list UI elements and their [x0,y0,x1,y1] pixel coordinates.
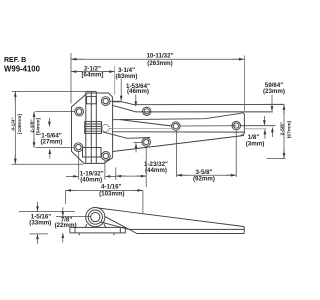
svg-text:2-3/8": 2-3/8" [29,119,35,132]
svg-text:(83mm): (83mm) [115,73,137,80]
base plate step right [119,227,121,233]
dimension 2-3/8 vertical line [33,112,35,148]
cam follower box upper [87,96,97,103]
1/8 up arrow 2 [271,128,273,138]
4-1/4 top extension line [12,90,86,92]
3-5/8 left extension (from hole B) [176,131,178,177]
grey underside extension [244,128,266,130]
pedestal right leg [104,224,106,228]
svg-text:(33mm): (33mm) [29,219,51,226]
1-23/32 left extension [115,168,117,181]
pin barrel top cap [86,90,97,92]
bracket plate outline [72,93,113,163]
pedestal left leg [85,224,87,228]
7/8 centerline reference [56,216,91,218]
strap hole A [143,107,151,115]
svg-text:(46mm): (46mm) [127,88,149,95]
strap tip extension line [243,56,245,112]
side flat bar top [129,228,244,230]
strap hole B [172,122,180,130]
1-53/64 lower up arrow [135,143,137,152]
strap second edge line [136,111,273,113]
pin barrel inner line [90,91,92,163]
strap mid bottom edge [113,131,245,133]
dimension 2-5/8 vertical line [283,104,285,158]
svg-text:(23mm): (23mm) [263,88,285,95]
hole TR centerline [111,100,122,102]
left extension line for overall dims [70,53,72,104]
1-5/16 top extension line [19,211,75,213]
1-5/64 down arrow [48,118,50,127]
svg-text:(3mm): (3mm) [246,141,265,148]
1/8 down arrow [263,116,265,125]
plate hole left-top [75,107,84,116]
svg-text:(27mm): (27mm) [40,138,62,145]
strap hole C [142,138,150,146]
svg-text:10-11/32": 10-11/32" [146,53,173,60]
dimension 10-11/32 line [71,58,244,60]
plate hole left-bottom [74,143,83,152]
svg-text:[108mm]: [108mm] [17,114,23,134]
1-19/32 outside arrows [66,175,78,177]
svg-text:(22mm): (22mm) [55,222,77,229]
hole3 centerline extension [241,125,276,127]
plate hole top-right [101,97,110,106]
base screw tick left [78,233,80,235]
svg-text:REF. B: REF. B [4,57,26,64]
dimension 4-1/4 vertical line [14,91,16,164]
svg-text:(44mm): (44mm) [145,167,167,174]
strap hole right [232,121,240,129]
7/8 down arrow [62,207,64,216]
2-5/8 bottom reference line [267,157,286,159]
1-5/16 down arrow [37,202,39,211]
1-5/64 up arrow [49,149,51,158]
strap tip end edge [241,112,245,135]
strap second edge root [113,105,136,112]
side strap top edge [97,208,244,227]
1-19/32 left extension (hole L2 centerline) [78,152,80,180]
side flat bar bottom [137,233,244,235]
svg-text:[64mm]: [64mm] [81,72,103,79]
side strap tip edge [243,227,245,234]
side strap lower fold line [101,222,129,229]
4-1/16 left extension [65,190,67,204]
hidden pin circle (dashed) [102,125,109,132]
svg-text:(67mm): (67mm) [286,120,292,138]
1-19/32 right extension [104,161,106,180]
side base plate [70,227,125,233]
1-53/64 leader arrow [135,95,137,107]
knuckle middle circle [88,210,102,224]
59/64 leader arrow [271,95,273,112]
dimension 1-23/32 line [116,175,146,177]
knurled cam [85,122,102,134]
1/8 up arrow 1 [264,130,266,139]
svg-text:W99-4100: W99-4100 [4,65,41,74]
hole C centerline [134,141,143,143]
base screw tick right [113,233,115,235]
strap top edge extension line [134,103,284,105]
svg-text:(263mm): (263mm) [147,60,172,67]
wedge upper boundary [113,113,242,120]
lower arm bottom edge [113,136,244,152]
knuckle pin circle [91,213,100,222]
svg-text:(103mm): (103mm) [99,190,124,197]
1-5/16 up arrow [37,234,39,244]
dimension 3-5/8 line [177,174,237,176]
svg-text:4-1/4": 4-1/4" [11,117,17,130]
dimension 4-1/16 line [66,189,143,191]
2-3/8 top extension line [36,111,75,113]
3-5/8 right extension (from hole3) [235,131,237,178]
side strap underside [105,216,137,233]
strap hole row centerline [180,125,236,127]
strap top edge at plate [113,102,134,105]
svg-text:(40mm): (40mm) [80,177,102,184]
1-5/16 bottom extension line [30,233,49,235]
svg-text:[54mm]: [54mm] [36,117,42,135]
4-1/4 bottom extension line [12,163,83,165]
hole slot lower line [109,127,171,130]
cam follower box lower [83,148,102,158]
7/8 up arrow [62,233,64,242]
svg-text:(92mm): (92mm) [193,176,215,183]
lower arm upper line [103,132,151,139]
base plate step left [74,227,76,233]
pin barrel right edge [95,91,97,163]
plate hole bottom-right [101,152,110,161]
1-23/32 right extension [145,148,147,188]
3-1/4 leader arrow [120,79,122,101]
4-1/16 right extension [142,190,144,213]
2-3/8 bottom extension line [36,147,74,149]
2-1/2 right extension [114,66,116,95]
dimension 2-1/2 line [71,71,115,73]
knuckle outer circle [86,208,105,227]
svg-text:2-5/8": 2-5/8" [279,122,285,135]
pin barrel left edge [85,91,87,163]
hole slot upper line [121,120,172,126]
